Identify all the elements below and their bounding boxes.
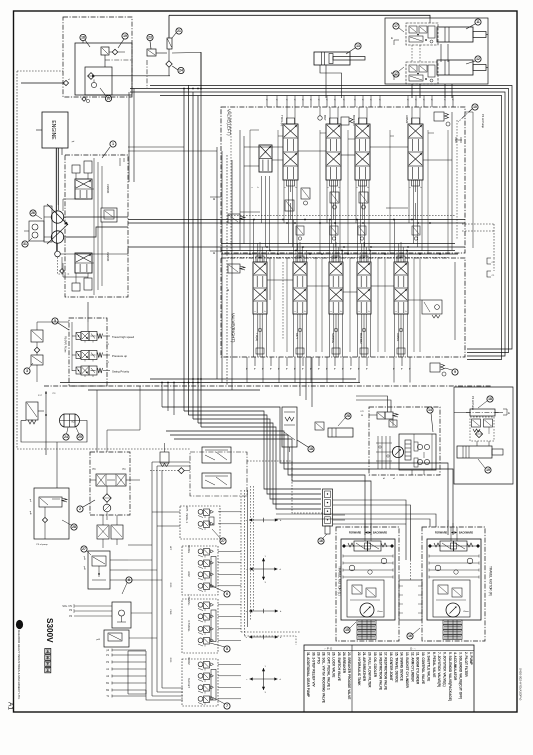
svg-text:24: 24 bbox=[64, 435, 68, 439]
mid bus junction dots bbox=[286, 222, 288, 224]
svg-text:O·→: O·→ bbox=[410, 647, 416, 651]
svg-text:45mm: 45mm bbox=[377, 611, 383, 613]
svg-text:M: M bbox=[212, 198, 216, 200]
svg-text:17. RESTRICTION VALVE: 17. RESTRICTION VALVE bbox=[384, 652, 388, 690]
wire loop to sol block bbox=[56, 442, 58, 488]
svg-text:28. SOL. V/V for ROCKING VALVE: 28. SOL. V/V for ROCKING VALVE bbox=[322, 652, 326, 703]
cutoff wires bbox=[36, 342, 38, 347]
accumulator 4 capsule bbox=[64, 414, 75, 427]
svg-text:13. BUCKET CYLINDER: 13. BUCKET CYLINDER bbox=[405, 652, 409, 688]
spool BOOM2 bbox=[357, 262, 371, 314]
aux pump symbols bbox=[29, 221, 44, 241]
load check e bbox=[318, 116, 322, 120]
svg-text:28: 28 bbox=[346, 414, 350, 418]
full flow filter 20 bbox=[475, 430, 482, 437]
second sub valve row bbox=[296, 226, 304, 235]
svg-text:19. OIL COOLER: 19. OIL COOLER bbox=[373, 652, 377, 678]
pump top ticks bbox=[119, 158, 121, 166]
node 19 callout bbox=[485, 467, 491, 473]
node 24 callout accu bbox=[63, 434, 69, 440]
lower sub valve cluster a bbox=[422, 300, 442, 314]
travel motor R assembly bbox=[422, 527, 485, 641]
solenoid valve 23 block bbox=[147, 49, 156, 56]
pilot wire mid run bbox=[94, 75, 170, 77]
node 18b callout bbox=[487, 396, 493, 402]
bucket cylinder 12 rod bbox=[473, 65, 486, 71]
svg-text:15: 15 bbox=[345, 628, 349, 632]
svg-text:24: 24 bbox=[179, 69, 183, 73]
node 16 callout motor R bbox=[407, 633, 413, 639]
node 19 callout bbox=[122, 33, 128, 39]
check marks on dashdot right bbox=[455, 139, 462, 141]
pilot filter 2 enclosure bbox=[90, 452, 130, 515]
svg-text:7. JOYSTICK VALVE(R): 7. JOYSTICK VALVE(R) bbox=[437, 652, 441, 687]
svg-text:S430-002-HYD(A3OPV): S430-002-HYD(A3OPV) bbox=[519, 668, 523, 700]
arm cylinder 11 rod bbox=[473, 32, 486, 38]
svg-text:C/V: C/V bbox=[360, 411, 364, 413]
restriction valve frame 17/18 bbox=[190, 452, 247, 496]
node 28 callout cooler bbox=[345, 413, 351, 419]
wire E-port stub a bbox=[394, 40, 399, 45]
pump link bottom bbox=[63, 276, 88, 278]
svg-text:16: 16 bbox=[319, 539, 323, 543]
svg-text:24. BREAKER: 24. BREAKER bbox=[342, 652, 346, 674]
svg-text:21: 21 bbox=[177, 29, 181, 33]
valve 18 (pilot relief) bbox=[101, 47, 109, 55]
pilot filter symbol bbox=[103, 494, 111, 502]
svg-text:31. ADDITIONAL GEAR PUMP: 31. ADDITIONAL GEAR PUMP bbox=[306, 652, 310, 698]
check valve 19 diamond bbox=[112, 49, 118, 55]
compensator sub box bbox=[101, 208, 117, 222]
spool ARM1 bbox=[394, 262, 408, 314]
axis cross pedal bbox=[249, 519, 278, 521]
svg-text:TR(R): TR(R) bbox=[255, 333, 259, 341]
svg-text:BOOM: BOOM bbox=[187, 657, 190, 664]
restriction valve 18 block bbox=[202, 473, 231, 488]
pump shaft line bbox=[55, 148, 57, 251]
wire from sol 23 down bbox=[200, 53, 202, 91]
solenoid manifold 5 enclosure bbox=[69, 318, 107, 386]
cutoff valve 3 group bbox=[31, 330, 43, 342]
drain line right of valve bbox=[472, 112, 474, 248]
center rail lower bbox=[269, 258, 271, 300]
svg-text:16. CENTER JOINT: 16. CENTER JOINT bbox=[389, 652, 393, 681]
svg-text:8: 8 bbox=[226, 647, 228, 651]
parts table divider bbox=[351, 645, 353, 712]
check pair boom1 bbox=[341, 117, 349, 125]
svg-text:SWING: SWING bbox=[331, 333, 335, 344]
svg-text:26. LOCK VALVE: 26. LOCK VALVE bbox=[332, 652, 336, 677]
swing inner frame bbox=[399, 434, 436, 470]
spool internal connectors lower bbox=[259, 242, 261, 262]
check diamond left bbox=[178, 468, 184, 474]
svg-text:1. PUMP: 1. PUMP bbox=[469, 652, 473, 666]
staircase dashed outer bbox=[247, 461, 323, 513]
axis cross joystick R bbox=[250, 678, 278, 680]
svg-text:BACKWARD: BACKWARD bbox=[373, 532, 387, 535]
pilot wire right run bbox=[156, 52, 167, 54]
valve top port ticks bbox=[266, 98, 268, 107]
svg-text:PEDAL 1: PEDAL 1 bbox=[185, 513, 188, 523]
node 26 callout small pumps bbox=[30, 210, 36, 216]
pilot group right stubs bbox=[218, 511, 241, 513]
svg-text:10. CONTROL VALVE: 10. CONTROL VALVE bbox=[421, 652, 425, 684]
svg-text:16: 16 bbox=[408, 634, 412, 638]
svg-text:31: 31 bbox=[23, 242, 27, 246]
node 24 callout bbox=[178, 67, 184, 73]
svg-text:28: 28 bbox=[72, 525, 76, 529]
parallel circuit rails bbox=[239, 130, 241, 250]
shuttle box wires bbox=[102, 515, 104, 525]
title glyph 1 bbox=[45, 649, 51, 654]
solenoid block 28 frame bbox=[34, 488, 69, 539]
svg-text:FORWARD: FORWARD bbox=[349, 532, 362, 535]
secondary vertical bus bbox=[216, 147, 218, 379]
staircase bundle to center joint bbox=[184, 411, 321, 489]
svg-text:30. 2-STEP RELIEF V/V: 30. 2-STEP RELIEF V/V bbox=[311, 652, 315, 688]
center joint outlet lines bbox=[333, 500, 406, 560]
svg-text:A1: A1 bbox=[7, 702, 14, 710]
filter wires bbox=[106, 486, 108, 494]
node 31 callout bbox=[22, 241, 28, 247]
svg-text:3. SOLENOID VALVE(CUT OFF): 3. SOLENOID VALVE(CUT OFF) bbox=[459, 652, 463, 699]
oil cooler cylinder bbox=[328, 428, 353, 437]
solenoid valve pressure-up bbox=[76, 352, 81, 359]
pump swash diagonal bbox=[47, 204, 68, 225]
pump group enclosure bbox=[65, 155, 128, 297]
inner hline lower bbox=[267, 279, 293, 281]
solenoid vv p2 block bbox=[112, 602, 131, 628]
svg-text:OPT: OPT bbox=[295, 333, 299, 339]
node 17a callout bbox=[393, 23, 399, 29]
svg-text:6: 6 bbox=[226, 592, 228, 596]
joystick valve group 6 swing-arm bbox=[182, 546, 218, 595]
svg-text:ENGINE: ENGINE bbox=[50, 120, 56, 140]
svg-text:17: 17 bbox=[394, 72, 398, 76]
svg-text:7: 7 bbox=[226, 704, 228, 708]
svg-text:12. ARM CYLINDER: 12. ARM CYLINDER bbox=[410, 652, 414, 682]
svg-text:12: 12 bbox=[476, 57, 480, 61]
breaker option bracket a bbox=[487, 258, 491, 264]
staircase bundle to travel motors bbox=[162, 407, 448, 535]
svg-text:13: 13 bbox=[356, 44, 360, 48]
node 13 callout bbox=[355, 43, 361, 49]
svg-text:10: 10 bbox=[473, 105, 477, 109]
company logo mark bbox=[16, 620, 23, 629]
pilot port rows bbox=[112, 649, 146, 651]
svg-text:OPT.: OPT. bbox=[185, 506, 188, 512]
engine accessory line bbox=[61, 148, 63, 155]
svg-text:11: 11 bbox=[476, 20, 480, 24]
pilot bus top horizontal lines bbox=[150, 86, 512, 350]
mid pilot bus lines bbox=[228, 215, 455, 217]
node 2 callout bbox=[77, 506, 83, 512]
return feed into filter bbox=[96, 390, 98, 452]
left inner cluster b bbox=[228, 264, 240, 273]
tank group enclosure bbox=[454, 387, 513, 484]
svg-text:14: 14 bbox=[428, 408, 432, 412]
riser lines to pilot groups bbox=[151, 462, 153, 696]
svg-text:TRAVEL MOTOR (R): TRAVEL MOTOR (R) bbox=[489, 566, 493, 596]
svg-text:P2 oil Pump: P2 oil Pump bbox=[471, 396, 475, 411]
sub valve (port relief) a bbox=[301, 188, 310, 199]
accumulator wires bbox=[38, 410, 44, 412]
upper spool pilot drops bbox=[283, 180, 285, 223]
relief pair arm2 bbox=[434, 112, 444, 121]
title glyph 3 bbox=[45, 661, 51, 666]
node 3 callout bbox=[24, 368, 30, 374]
node 23 callout bbox=[147, 34, 153, 40]
node 9 callout bbox=[452, 369, 458, 375]
control valve VALVE(LEFT) enclosure bbox=[221, 107, 465, 253]
node 17b callout bbox=[393, 71, 399, 77]
svg-text:BOOM2: BOOM2 bbox=[359, 333, 363, 344]
swing relief checks upper bbox=[417, 444, 422, 449]
svg-text:BACKWARD: BACKWARD bbox=[459, 532, 473, 535]
axis cross travel b bbox=[249, 636, 278, 638]
svg-text:27. OPT. PEDAL VALVE 1: 27. OPT. PEDAL VALVE 1 bbox=[327, 652, 331, 690]
svg-text:BKT: BKT bbox=[323, 115, 327, 121]
check valve 24 bbox=[166, 61, 172, 67]
svg-text:6. JOYSTICK VALVE(L): 6. JOYSTICK VALVE(L) bbox=[442, 652, 446, 687]
motor crossover lines bbox=[364, 520, 366, 527]
wire E-port stub b bbox=[394, 75, 399, 80]
svg-text:20. FULL FLOW FILTER: 20. FULL FLOW FILTER bbox=[368, 652, 372, 688]
valve bottom port ticks bbox=[246, 357, 248, 366]
svg-text:P3 of pump: P3 of pump bbox=[36, 544, 48, 546]
svg-text:8. PEDAL VALVE: 8. PEDAL VALVE bbox=[432, 652, 436, 677]
svg-text:25. SWITCH VALVE: 25. SWITCH VALVE bbox=[337, 652, 341, 681]
riser links upper bbox=[131, 612, 152, 614]
spool internal connectors upper bbox=[290, 180, 292, 192]
valve block 17a (arm holding) bbox=[406, 23, 438, 45]
node 21 callout bbox=[176, 28, 182, 34]
regulator caps a bbox=[72, 165, 80, 173]
main pump P2 circle bbox=[51, 231, 63, 243]
lower inter-column rails bbox=[273, 258, 275, 353]
bus top junction dots bbox=[183, 88, 185, 90]
pressure reduce diamond valve bbox=[88, 73, 95, 80]
svg-text:S300V: S300V bbox=[45, 618, 54, 643]
svg-text:ARM2: ARM2 bbox=[405, 115, 409, 124]
more bus dots bbox=[249, 253, 251, 255]
swing motor circle bbox=[392, 446, 403, 457]
main vertical bus left of valve bbox=[183, 89, 185, 412]
regulator caps b bbox=[72, 283, 80, 291]
swing brake piston dark bbox=[405, 440, 411, 460]
svg-text:OMR040: OMR040 bbox=[106, 252, 108, 262]
svg-text:19: 19 bbox=[123, 34, 127, 38]
upper rail jogs bbox=[250, 129, 259, 131]
feedback lines bbox=[93, 158, 95, 295]
svg-text:P3 (P/P) P/Line: P3 (P/P) P/Line bbox=[64, 336, 67, 353]
axis cross travel a bbox=[249, 610, 278, 612]
lock valve 26 block bbox=[104, 630, 129, 647]
travel pedal group 8 bbox=[182, 599, 218, 653]
pump link top bbox=[75, 186, 76, 188]
bus drop from pump top bbox=[128, 92, 130, 182]
valve bottom port drops bbox=[246, 366, 248, 383]
node 14 callout bbox=[427, 407, 433, 413]
svg-text:26: 26 bbox=[31, 211, 35, 215]
travel motor L assembly bbox=[336, 527, 399, 641]
svg-text:SOL. V/V: SOL. V/V bbox=[62, 606, 72, 608]
pilot inner frame b bbox=[85, 67, 112, 95]
swing device 14 enclosure bbox=[369, 407, 440, 475]
wire top feed to cylinders bbox=[169, 15, 430, 18]
svg-text:DAEWOO HEAVY INDUSTRIES & MACH: DAEWOO HEAVY INDUSTRIES & MACHINERY LTD. bbox=[17, 630, 21, 700]
node 28 callout bbox=[71, 524, 77, 530]
pilot supply spool bbox=[96, 474, 126, 486]
node 15 callout motor L bbox=[344, 627, 350, 633]
arm cylinder 11 body bbox=[437, 27, 473, 42]
swing sub valve bbox=[389, 420, 397, 427]
travel crossover extra a bbox=[276, 514, 436, 527]
E bracket tank bbox=[503, 409, 507, 415]
svg-text:21. AIR BREATHER: 21. AIR BREATHER bbox=[362, 652, 366, 682]
svg-text:19: 19 bbox=[486, 468, 490, 472]
wire box internals bbox=[104, 55, 106, 67]
svg-text:SWING: SWING bbox=[187, 545, 190, 553]
svg-text:18: 18 bbox=[488, 397, 492, 401]
bucket cylinder 12 body bbox=[437, 60, 473, 75]
node 25 callout accu bbox=[77, 434, 83, 440]
regulator spool b (P2) bbox=[75, 253, 92, 273]
svg-text:LIFT: LIFT bbox=[169, 546, 171, 551]
svg-text:VALVE(RIGHT): VALVE(RIGHT) bbox=[231, 313, 236, 343]
node 10 callout bbox=[472, 104, 478, 110]
small valve 28b bbox=[315, 422, 324, 430]
svg-text:15. TRAVEL DEVICE: 15. TRAVEL DEVICE bbox=[394, 652, 398, 683]
check valve left edge bbox=[63, 80, 68, 85]
svg-text:ARM1: ARM1 bbox=[396, 333, 400, 342]
svg-text:23. BREAKER PROXIDE VALVE: 23. BREAKER PROXIDE VALVE bbox=[347, 652, 351, 699]
center joint 16 column bbox=[323, 489, 333, 526]
svg-text:27: 27 bbox=[221, 539, 225, 543]
pilot group enclosure (dash-dot box) bbox=[63, 17, 132, 97]
svg-text:5. SOLENOID VALVE(PACKAGE): 5. SOLENOID VALVE(PACKAGE) bbox=[448, 652, 452, 701]
pilot riser dashed pair bbox=[240, 490, 242, 632]
inner hline b bbox=[244, 165, 259, 167]
rocking check bbox=[42, 517, 47, 522]
cylinder group enclosure bbox=[385, 18, 488, 84]
pump outlet lines bbox=[64, 216, 128, 218]
spool OPT bbox=[293, 262, 307, 314]
bus drop to staircase bbox=[161, 383, 163, 408]
svg-text:18. RESTRICTION VALVE: 18. RESTRICTION VALVE bbox=[378, 652, 382, 690]
svg-text:ROD: ROD bbox=[169, 583, 171, 588]
svg-text:FWD: FWD bbox=[169, 610, 171, 615]
sub valve (port relief) b bbox=[330, 192, 339, 203]
svg-text:FORWARD: FORWARD bbox=[435, 532, 448, 535]
left inner cluster a bbox=[228, 214, 240, 223]
svg-text:E: E bbox=[391, 36, 393, 40]
pilot pump circle b bbox=[91, 82, 96, 87]
svg-text:P2 oil Pump: P2 oil Pump bbox=[481, 114, 485, 129]
node 6a callout bbox=[126, 577, 132, 583]
valve block 17b (bucket holding) bbox=[406, 62, 438, 84]
wire boom cyl down bbox=[320, 65, 342, 98]
svg-text:BUCKET: BUCKET bbox=[187, 678, 190, 688]
swing control solenoid bbox=[377, 412, 385, 419]
axis cross joystick L bbox=[250, 568, 278, 570]
relief valve 2 left bbox=[26, 402, 38, 420]
control valve VALVE(RIGHT) enclosure bbox=[221, 258, 465, 357]
node 27 callout pedal bbox=[81, 546, 87, 552]
swing outlet lines bbox=[299, 357, 301, 396]
svg-text:2. PILOT FILTER: 2. PILOT FILTER bbox=[464, 652, 468, 677]
valve 21 block bbox=[167, 38, 172, 49]
air breather 21 cylinder bbox=[457, 446, 492, 458]
svg-text:1: 1 bbox=[112, 142, 114, 146]
breaker option bracket b bbox=[487, 271, 491, 277]
node 5 callout bbox=[52, 318, 58, 324]
port row risers bbox=[127, 651, 129, 694]
svg-text:17: 17 bbox=[394, 24, 398, 28]
node 16 callout lower bbox=[318, 538, 324, 544]
pilot line pump to valve bbox=[128, 146, 184, 148]
svg-text:11. BOOM CYLINDER: 11. BOOM CYLINDER bbox=[416, 652, 420, 685]
opt pedal valve group 27 bbox=[180, 506, 220, 539]
manifold feed lines bbox=[87, 302, 89, 322]
center joint block between motors bbox=[399, 580, 422, 620]
wire cylinder feeds down to valve bbox=[440, 44, 442, 62]
solenoid valve swing-priority bbox=[76, 367, 81, 374]
node 12 callout bbox=[475, 56, 481, 62]
joystick valve group 7 boom-bucket bbox=[182, 659, 218, 706]
svg-text:25: 25 bbox=[78, 435, 82, 439]
restriction valve 17 block bbox=[202, 447, 231, 463]
svg-text:4. ACCUMULATOR: 4. ACCUMULATOR bbox=[453, 652, 457, 681]
pilot gear pump circle bbox=[55, 251, 61, 257]
tank grp wires bbox=[476, 416, 478, 417]
lower spool pilot feeds bbox=[253, 220, 255, 263]
title glyph 2 bbox=[45, 655, 51, 660]
swing brake hatch bbox=[377, 436, 379, 469]
gear pump drain diamond bbox=[60, 269, 65, 274]
svg-text:29. PTO: 29. PTO bbox=[316, 652, 320, 664]
svg-text:Pressure up: Pressure up bbox=[112, 354, 128, 358]
sub valve (port relief) c bbox=[359, 192, 368, 203]
spool TR(R) bbox=[253, 262, 267, 314]
svg-text:E: E bbox=[508, 411, 510, 415]
svg-text:18: 18 bbox=[309, 447, 313, 451]
svg-text:9. SHUTTLE VALVE: 9. SHUTTLE VALVE bbox=[426, 652, 430, 681]
pilot pump circle bbox=[103, 504, 111, 512]
travel crossover extra c bbox=[333, 523, 406, 525]
svg-text:Travel high speed: Travel high speed bbox=[112, 335, 135, 339]
svg-text:R.TRAVEL: R.TRAVEL bbox=[187, 620, 190, 632]
ENGINE block bbox=[42, 112, 68, 148]
svg-text:22. HYDRAULIC TANK: 22. HYDRAULIC TANK bbox=[357, 652, 361, 686]
svg-text:M: M bbox=[226, 289, 230, 291]
riser bottom bends bbox=[241, 631, 300, 633]
main pump P1 circle bbox=[51, 211, 63, 223]
lower relief pair arm1 bbox=[430, 363, 440, 372]
title glyph 4 bbox=[45, 667, 51, 672]
node 11 callout bbox=[475, 19, 481, 25]
left border dashed line bbox=[16, 71, 18, 449]
node 18 callout right bbox=[308, 446, 314, 452]
pedal valve 8 block bbox=[88, 551, 110, 589]
solenoid valve travel-hi bbox=[76, 333, 81, 340]
shuttle boxes 9 bbox=[97, 525, 109, 539]
bus bottom junction dots bbox=[161, 382, 163, 384]
bypass valve dotted box bbox=[470, 417, 494, 441]
swing crossover lines bbox=[413, 434, 415, 442]
swing feed bends bbox=[356, 396, 388, 412]
node 18 callout bbox=[80, 34, 86, 40]
